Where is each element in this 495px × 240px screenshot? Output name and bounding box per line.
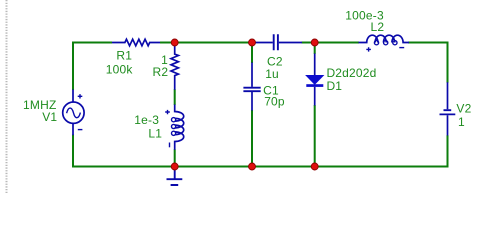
diode D1 cathode bar — [306, 84, 323, 87]
L2 minus mark — [399, 47, 404, 49]
svg-text:1e-3: 1e-3 — [134, 113, 159, 127]
wire top left (corner to R1) — [73, 42, 112, 44]
inductor L2 — [359, 35, 410, 42]
V1 plus mark — [78, 94, 83, 98]
V1 sine wave — [67, 108, 81, 118]
capacitor C1 leads — [251, 63, 253, 111]
wire top right (L2 to corner) — [408, 42, 449, 44]
battery V2 leads — [447, 82, 449, 135]
wire R2 bottom to L1 top — [174, 89, 176, 105]
wire bottom rail — [72, 166, 449, 168]
capacitor C1 plates — [243, 88, 260, 92]
wire top (C2 right lead to D1 node, to L2) — [302, 42, 360, 44]
resistor R2 — [171, 45, 178, 90]
page edge dotted line — [6, 0, 8, 193]
capacitor C2 plates — [274, 34, 278, 50]
ground symbol — [167, 167, 183, 186]
junction node R1/R2 top — [171, 39, 178, 46]
V1 lead bottom — [72, 123, 74, 135]
resistor R1 — [112, 39, 160, 46]
svg-text:V1: V1 — [42, 110, 57, 124]
L1 plus mark — [165, 110, 170, 114]
battery V2 plates — [440, 110, 456, 114]
wire C1 bottom — [251, 110, 253, 167]
junction node D1 bottom — [311, 163, 318, 170]
svg-text:R2: R2 — [153, 65, 169, 79]
junction node ground bottom — [171, 163, 178, 170]
svg-text:1u: 1u — [265, 67, 279, 81]
wire D1 top — [314, 43, 316, 55]
wire left rail — [72, 42, 74, 168]
svg-text:100k: 100k — [106, 62, 134, 76]
wire top middle (R1 to node, node to C2 node) — [160, 42, 253, 44]
diode D1 triangle — [306, 76, 323, 85]
svg-text:L1: L1 — [148, 127, 162, 141]
capacitor C2 leads — [253, 42, 302, 44]
svg-text:D2d202d: D2d202d — [326, 66, 376, 80]
L1 minus mark — [169, 143, 171, 148]
source V1 circle — [63, 102, 84, 123]
junction node C1/C2 top — [249, 39, 256, 46]
wire C1 top — [251, 43, 253, 64]
L2 coil loops — [374, 41, 378, 45]
svg-text:70p: 70p — [264, 94, 285, 108]
junction node C1 bottom — [249, 163, 256, 170]
V1 lead top — [72, 90, 74, 103]
wire D1 bottom — [314, 105, 316, 167]
svg-text:V2: V2 — [456, 102, 471, 116]
wire L1 bottom to ground node — [174, 149, 176, 166]
L2 plus mark — [366, 47, 371, 51]
svg-text:D1: D1 — [326, 79, 342, 93]
inductor L1 — [175, 105, 184, 150]
L1 coil loops — [172, 118, 176, 122]
diode D1 lead top — [314, 54, 316, 77]
wire right rail — [447, 42, 449, 168]
svg-text:1: 1 — [458, 115, 465, 129]
V1 minus mark — [78, 129, 83, 131]
svg-text:R1: R1 — [116, 49, 132, 63]
junction node C2/D1 top — [311, 39, 318, 46]
svg-text:L2: L2 — [371, 20, 385, 34]
diode D1 lead bottom — [314, 87, 316, 106]
